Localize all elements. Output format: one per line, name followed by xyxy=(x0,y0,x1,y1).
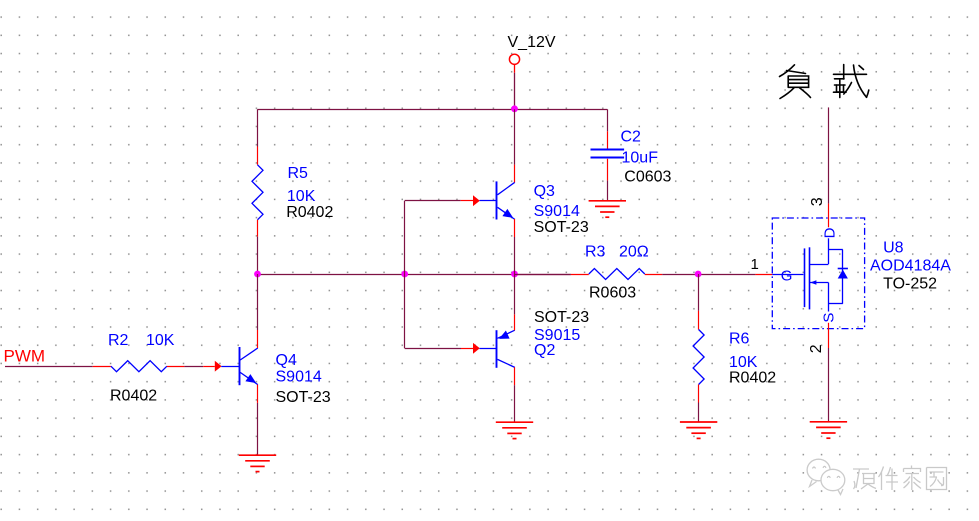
svg-text:Q2: Q2 xyxy=(534,342,555,359)
resistor R2 xyxy=(111,361,167,372)
junction base-branch node xyxy=(401,271,408,278)
svg-text:R5: R5 xyxy=(288,165,309,182)
svg-text:V_12V: V_12V xyxy=(508,34,556,51)
wire Q4 emitter xyxy=(257,403,259,455)
pin R5 top xyxy=(257,147,259,165)
mosfet U8 dashed box xyxy=(772,218,864,329)
junction top rail / V_12V xyxy=(511,105,518,112)
wire V_12V stem xyxy=(514,73,516,110)
junction R6 node xyxy=(695,271,702,278)
wire center rail left xyxy=(258,274,571,276)
pin U8 gate pin 1 xyxy=(755,274,772,276)
svg-text:TO-252: TO-252 xyxy=(883,276,937,293)
wire Q2 collector xyxy=(514,385,516,422)
resistor R5 xyxy=(252,165,263,220)
watermark wechat logo xyxy=(807,459,845,494)
wire C2 top xyxy=(607,109,609,131)
wire to Q2 base xyxy=(405,348,461,350)
ground under C2 xyxy=(589,201,626,217)
watermark text 硬件家园 (drawn strokes) xyxy=(853,466,947,491)
wire R3 to gate node xyxy=(662,274,755,276)
svg-text:U8: U8 xyxy=(883,240,904,257)
svg-text:S: S xyxy=(821,313,838,323)
pin V_12V stem red xyxy=(514,64,516,73)
svg-text:R0402: R0402 xyxy=(110,388,157,405)
wire R5 bottom xyxy=(257,237,259,274)
wire U8 source to ground xyxy=(828,348,830,422)
svg-text:PWM: PWM xyxy=(4,346,46,365)
transistor Q4 xyxy=(203,347,258,385)
ground under R6 xyxy=(680,422,717,438)
pin Q2 collector xyxy=(514,367,516,385)
svg-text:10K: 10K xyxy=(729,354,758,371)
transistor Q2 xyxy=(461,330,515,368)
wire top rail horizontal xyxy=(258,109,608,111)
svg-text:Q4: Q4 xyxy=(276,352,297,369)
wire Q3 collector xyxy=(514,109,516,164)
svg-text:C2: C2 xyxy=(621,129,642,146)
wire Q4 collector xyxy=(257,274,259,330)
svg-text:R6: R6 xyxy=(729,331,750,348)
wire to Q3 base xyxy=(405,200,461,202)
ground under Q2 xyxy=(496,422,533,438)
svg-text:1: 1 xyxy=(751,256,759,273)
pin R6 bottom xyxy=(698,385,700,403)
wire PWM xyxy=(5,366,93,368)
wire C2 bottom xyxy=(607,181,609,201)
pin R2 right xyxy=(167,366,185,368)
load label 负载 (drawn strokes) xyxy=(780,65,869,99)
wire base branch vertical xyxy=(404,201,406,349)
wire R2 to Q4 xyxy=(184,366,203,368)
wire R6 bottom xyxy=(698,403,700,423)
ground under Q4 xyxy=(239,455,276,471)
svg-text:S9014: S9014 xyxy=(276,369,322,386)
pin R6 top xyxy=(698,311,700,330)
wire R6 top xyxy=(698,274,700,311)
ground under U8 xyxy=(810,422,847,438)
svg-text:SOT-23: SOT-23 xyxy=(276,389,331,406)
svg-text:SOT-23: SOT-23 xyxy=(534,309,589,326)
svg-text:R2: R2 xyxy=(108,332,129,349)
transistor Q3 xyxy=(461,181,515,219)
svg-text:R0402: R0402 xyxy=(286,204,333,221)
resistor R6 xyxy=(693,330,704,385)
svg-text:C0603: C0603 xyxy=(624,168,671,185)
junction R5/Q4 node xyxy=(254,271,261,278)
svg-text:10K: 10K xyxy=(146,332,175,349)
svg-text:R0603: R0603 xyxy=(589,284,636,301)
pin R2 left xyxy=(93,366,111,368)
svg-text:AOD4184A: AOD4184A xyxy=(870,258,951,275)
svg-text:S9014: S9014 xyxy=(534,203,580,220)
pin Q3 emitter xyxy=(514,219,516,237)
mosfet U8 symbol xyxy=(772,238,848,311)
svg-text:2: 2 xyxy=(808,344,825,353)
wire load to U8 drain xyxy=(828,107,830,203)
wire Q3 emitter xyxy=(514,237,516,274)
svg-text:R3: R3 xyxy=(585,244,606,261)
pin Q4 emitter xyxy=(257,385,259,403)
svg-text:Q3: Q3 xyxy=(534,183,555,200)
pin C2 bottom xyxy=(607,159,609,181)
pin C2 top xyxy=(607,131,609,149)
svg-text:SOT-23: SOT-23 xyxy=(534,219,589,236)
junction emitter node xyxy=(511,271,518,278)
resistor R3 xyxy=(589,269,645,280)
pin U8 drain pin 3 xyxy=(828,204,830,228)
pin Q2 emitter xyxy=(514,314,516,330)
wire to R3 xyxy=(515,274,571,276)
svg-text:G: G xyxy=(781,268,793,285)
pin R5 bottom xyxy=(257,220,259,237)
svg-text:10uF: 10uF xyxy=(622,150,659,167)
wire Q2 emitter xyxy=(514,274,516,314)
svg-text:R0402: R0402 xyxy=(729,370,776,387)
svg-text:10K: 10K xyxy=(287,188,316,205)
pin Q4 collector xyxy=(257,330,259,348)
pin R3 right xyxy=(645,274,662,276)
power port V_12V xyxy=(509,54,519,64)
pin R3 left xyxy=(571,274,589,276)
svg-text:3: 3 xyxy=(809,197,826,206)
pin U8 source pin 2 xyxy=(828,323,830,348)
capacitor C2 xyxy=(591,150,625,158)
svg-text:20Ω: 20Ω xyxy=(619,244,649,261)
wire R5 top xyxy=(257,109,259,146)
pin Q3 collector xyxy=(514,165,516,183)
svg-text:D: D xyxy=(822,227,839,238)
